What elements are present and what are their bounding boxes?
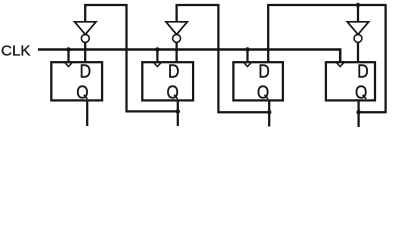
flip-flop FF4 box — [326, 62, 375, 100]
inverter G1 triangle — [75, 22, 96, 35]
wire clock drop to FF1 — [67, 50, 69, 63]
node junction dot Q4 — [356, 110, 360, 114]
clock edge arrowhead FF1 — [65, 63, 72, 67]
inverter G1 bubble — [81, 34, 89, 42]
wire G2 output to FF2 D — [175, 42, 177, 62]
wire net Q2 to inverter G1 input (up-over-down-over) — [85, 5, 178, 111]
wire clock drop to FF2 — [156, 50, 158, 63]
wire G3 output to FF4 D — [357, 42, 359, 62]
node junction dot Q3 — [267, 110, 271, 114]
wire G3 input stem — [357, 5, 359, 22]
node junction dot CLK-FF1 — [66, 47, 70, 51]
wire CLK bus: from label to FF4 clock pin — [38, 50, 340, 63]
svg-text:D: D — [258, 60, 269, 81]
wire Q3 output stub — [268, 100, 270, 126]
node junction dot Q4-wire to G3 input — [356, 3, 360, 7]
svg-text:CLK: CLK — [1, 42, 31, 59]
inverter G3 bubble — [354, 34, 362, 42]
wire G1 output to FF1 D — [84, 42, 86, 62]
flip-flop FF3 box — [233, 62, 283, 100]
clock edge arrowhead FF3 — [244, 63, 251, 67]
flip-flop FF2 box — [142, 62, 193, 100]
wire Q1 output stub — [86, 100, 88, 126]
clock edge arrowhead FF4 — [337, 63, 344, 67]
svg-text:D: D — [80, 60, 91, 81]
node junction dot Q2 — [176, 109, 180, 113]
clock edge arrowhead FF2 — [154, 63, 161, 67]
svg-text:D: D — [357, 60, 368, 81]
inverter G2 triangle — [166, 22, 187, 35]
flip-flop FF1 box — [51, 62, 102, 100]
wire Q2 output stub — [177, 100, 179, 126]
wire Q4 output stub — [357, 100, 359, 127]
node junction dot CLK-FF3 — [245, 47, 249, 51]
wire net Q3 to inverter G2 input — [177, 5, 270, 112]
inverter G3 triangle — [347, 22, 368, 35]
wire clock drop to FF3 — [246, 50, 248, 63]
inverter G2 bubble — [173, 34, 181, 42]
node junction dot CLK-FF2 — [155, 47, 159, 51]
wire net Q4 to FF3 D (top long wire) — [268, 5, 385, 112]
svg-text:D: D — [168, 60, 179, 81]
